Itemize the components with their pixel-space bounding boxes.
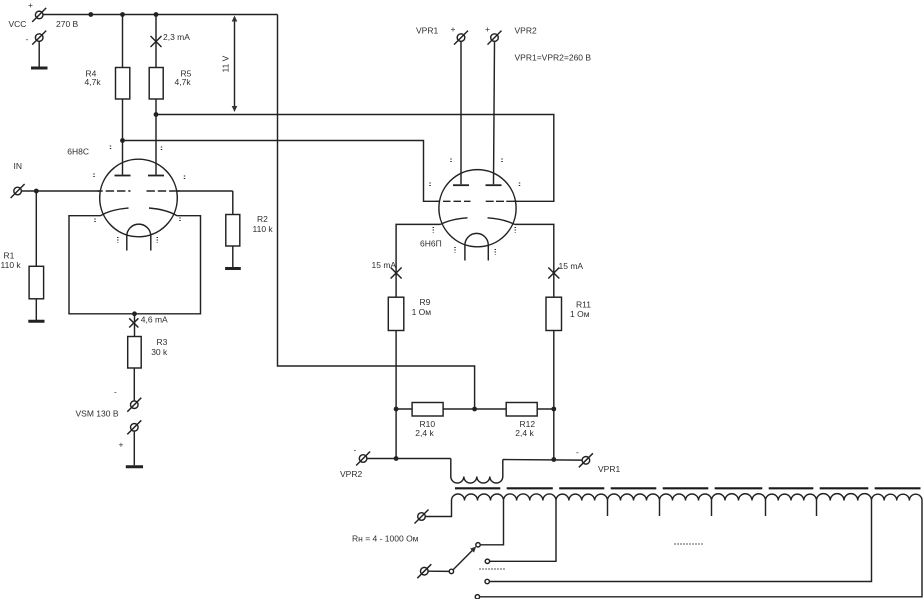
U2 grid (dashed) (437, 200, 441, 202)
svg-text:+: + (119, 440, 124, 450)
tap stub (711, 501, 713, 517)
svg-text:4,7k: 4,7k (85, 77, 102, 87)
svg-text:R1: R1 (4, 251, 15, 261)
switch contact 3 (485, 579, 489, 583)
port VSM+ (119, 420, 142, 449)
node (120, 12, 125, 17)
svg-text:4,6 mA: 4,6 mA (141, 315, 168, 325)
wire (133, 431, 135, 465)
svg-text:VSM 130 В: VSM 130 В (76, 409, 119, 419)
port VPR2 top (485, 24, 537, 45)
node (34, 189, 39, 194)
svg-text:1 Ом: 1 Ом (570, 309, 590, 319)
svg-text:R9: R9 (420, 297, 431, 307)
wire (38, 42, 40, 67)
node (88, 12, 93, 17)
current probe 15 mA right (548, 261, 583, 279)
svg-text:VPR2: VPR2 (340, 469, 362, 479)
switch contact 1 (476, 543, 480, 547)
svg-text:2,4 k: 2,4 k (515, 428, 534, 438)
wire secondary left terminal (426, 501, 452, 517)
port IN (11, 161, 25, 198)
resistor R4 (85, 15, 130, 175)
svg-text:6Н8С: 6Н8С (67, 147, 89, 157)
wire R4 node to U2 left grid (123, 141, 440, 202)
U1 cathode K1 (101, 208, 129, 216)
U1 cathode K2 (149, 208, 177, 216)
pin marks U1 (94, 146, 185, 243)
resistor R9 (388, 297, 431, 409)
port VSM- (114, 387, 141, 412)
svg-text:IN: IN (14, 161, 23, 171)
transformer T1 primary (451, 459, 503, 484)
svg-text:VPR1=VPR2=260 В: VPR1=VPR2=260 В (515, 53, 592, 63)
resistor R3 (128, 314, 168, 401)
U2 cathode K2 (488, 218, 515, 225)
svg-text:110 k: 110 k (253, 224, 274, 234)
port VPR2 bottom (340, 445, 370, 480)
measure arrow 11 V (221, 16, 238, 113)
tube U1 6Н8С envelope (100, 159, 178, 237)
svg-text:6Н6П: 6Н6П (420, 239, 442, 249)
svg-text:R3: R3 (157, 337, 168, 347)
resistor R10 (396, 403, 506, 439)
U2 cathode K1 (441, 218, 468, 225)
wire R9 node down to primary left (395, 409, 397, 459)
U1 heater (127, 224, 151, 250)
node (154, 112, 159, 117)
svg-text:+: + (485, 24, 490, 34)
svg-text:-: - (26, 34, 29, 44)
svg-text:VPR1: VPR1 (416, 26, 438, 36)
node (154, 12, 159, 17)
current probe 15 mA left (372, 260, 402, 279)
port OUT common (415, 510, 429, 524)
svg-text:2,3 mA: 2,3 mA (163, 32, 190, 42)
tap stub (816, 501, 818, 517)
wire grid to R2 (177, 190, 233, 192)
U1 grid (dashed) (98, 190, 103, 192)
node (472, 407, 477, 412)
svg-text:R11: R11 (576, 300, 591, 310)
wire (428, 570, 449, 572)
node (394, 456, 399, 461)
node (551, 457, 556, 462)
resistor R12 (506, 403, 554, 439)
svg-text:+: + (451, 24, 456, 34)
svg-text:2,4 k: 2,4 k (415, 428, 434, 438)
resistor R5 (149, 15, 191, 175)
node (551, 407, 556, 412)
svg-text:30 k: 30 k (151, 347, 168, 357)
current probe 4,6 mA (129, 315, 168, 328)
current probe 2,3 mA (151, 32, 191, 47)
tap stub (659, 501, 661, 517)
svg-text:1 Ом: 1 Ом (412, 307, 432, 317)
switch contact 2 (485, 559, 489, 563)
svg-text:VPR1: VPR1 (598, 464, 620, 474)
wire U2 right cathode to R11 (515, 224, 554, 297)
ground (31, 67, 48, 70)
svg-text:-: - (354, 445, 357, 455)
port VCC+ (28, 0, 46, 22)
ground (225, 267, 241, 270)
secondary right end wire (480, 501, 922, 597)
pin marks U2 (430, 159, 520, 255)
svg-text:15 mA: 15 mA (559, 261, 584, 271)
switch SW1 port (417, 564, 431, 578)
wire R5 node to U2 right grid (156, 115, 554, 202)
svg-text:-: - (576, 447, 579, 457)
wire (503, 459, 582, 462)
wire (460, 42, 462, 185)
port VPR1 bottom (576, 447, 620, 474)
tap 1 wire (481, 501, 504, 545)
tap 8 wire (490, 501, 872, 582)
svg-text:R2: R2 (257, 214, 268, 224)
port VPR1 top (416, 24, 468, 45)
wire U1 cathode loop (69, 216, 201, 314)
svg-text:11 V: 11 V (221, 55, 231, 72)
resistor R1 (1, 191, 44, 320)
svg-text:4,7k: 4,7k (175, 77, 192, 87)
svg-text:VCC: VCC (9, 19, 27, 29)
node (394, 407, 399, 412)
switch arm (453, 550, 473, 570)
switch contact 4 (475, 595, 479, 599)
svg-text:Rн = 4 - 1000 Ом: Rн = 4 - 1000 Ом (352, 534, 419, 544)
wire VCC top rail (43, 14, 277, 16)
U1 anode A2 (148, 175, 164, 177)
U2 anode A2 (486, 184, 502, 186)
resistor R11 (546, 297, 591, 409)
tap 2 wire (490, 501, 556, 562)
U1 anode A1 (115, 175, 131, 177)
dotted ellipsis near switch (480, 568, 506, 570)
wire (367, 458, 451, 460)
svg-text:270 В: 270 В (56, 19, 79, 29)
transformer T1 secondary (452, 494, 923, 501)
U2 heater (465, 233, 488, 260)
node (120, 138, 125, 143)
wire R11 node down to primary right (553, 409, 555, 460)
port VCC- (26, 31, 47, 45)
wire IN to grid (22, 190, 101, 192)
tap stub (607, 501, 609, 517)
svg-text:VPR2: VPR2 (515, 26, 537, 36)
resistor R2 (226, 191, 274, 267)
transformer T1 core (455, 487, 921, 489)
wire VCC drop to R10/R12 midpoint (278, 15, 475, 410)
wire (494, 42, 495, 185)
ground (28, 320, 44, 323)
svg-text:+: + (28, 0, 33, 10)
wire U2 left cathode to R9 (396, 224, 440, 297)
node (132, 311, 137, 316)
U2 anode A1 (453, 184, 469, 186)
switch pivot (449, 569, 453, 573)
tube U2 6Н6П envelope (439, 170, 516, 247)
tap stub (765, 501, 767, 517)
svg-text:-: - (114, 387, 117, 397)
svg-text:15 mA: 15 mA (372, 260, 397, 270)
ground (126, 465, 143, 468)
svg-text:110 k: 110 k (1, 260, 22, 270)
dotted ellipsis mid secondary (675, 543, 703, 545)
